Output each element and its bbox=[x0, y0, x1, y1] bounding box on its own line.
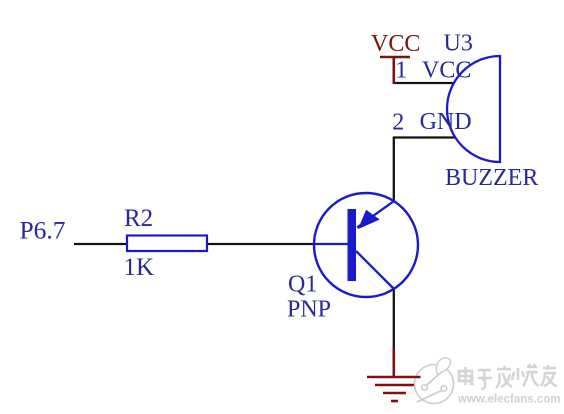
svg-text:Q1: Q1 bbox=[288, 271, 317, 297]
svg-text:BUZZER: BUZZER bbox=[445, 165, 538, 191]
svg-text:VCC: VCC bbox=[371, 31, 420, 57]
svg-text:1: 1 bbox=[395, 58, 407, 84]
svg-text:R2: R2 bbox=[124, 205, 153, 232]
svg-text:VCC: VCC bbox=[422, 58, 471, 84]
svg-text:P6.7: P6.7 bbox=[20, 216, 66, 245]
svg-text:www.elecfans.com: www.elecfans.com bbox=[457, 394, 560, 406]
svg-text:1K: 1K bbox=[124, 254, 155, 281]
svg-text:GND: GND bbox=[420, 109, 472, 135]
svg-text:PNP: PNP bbox=[287, 297, 331, 323]
svg-text:2: 2 bbox=[392, 110, 404, 136]
svg-text:U3: U3 bbox=[444, 31, 473, 57]
